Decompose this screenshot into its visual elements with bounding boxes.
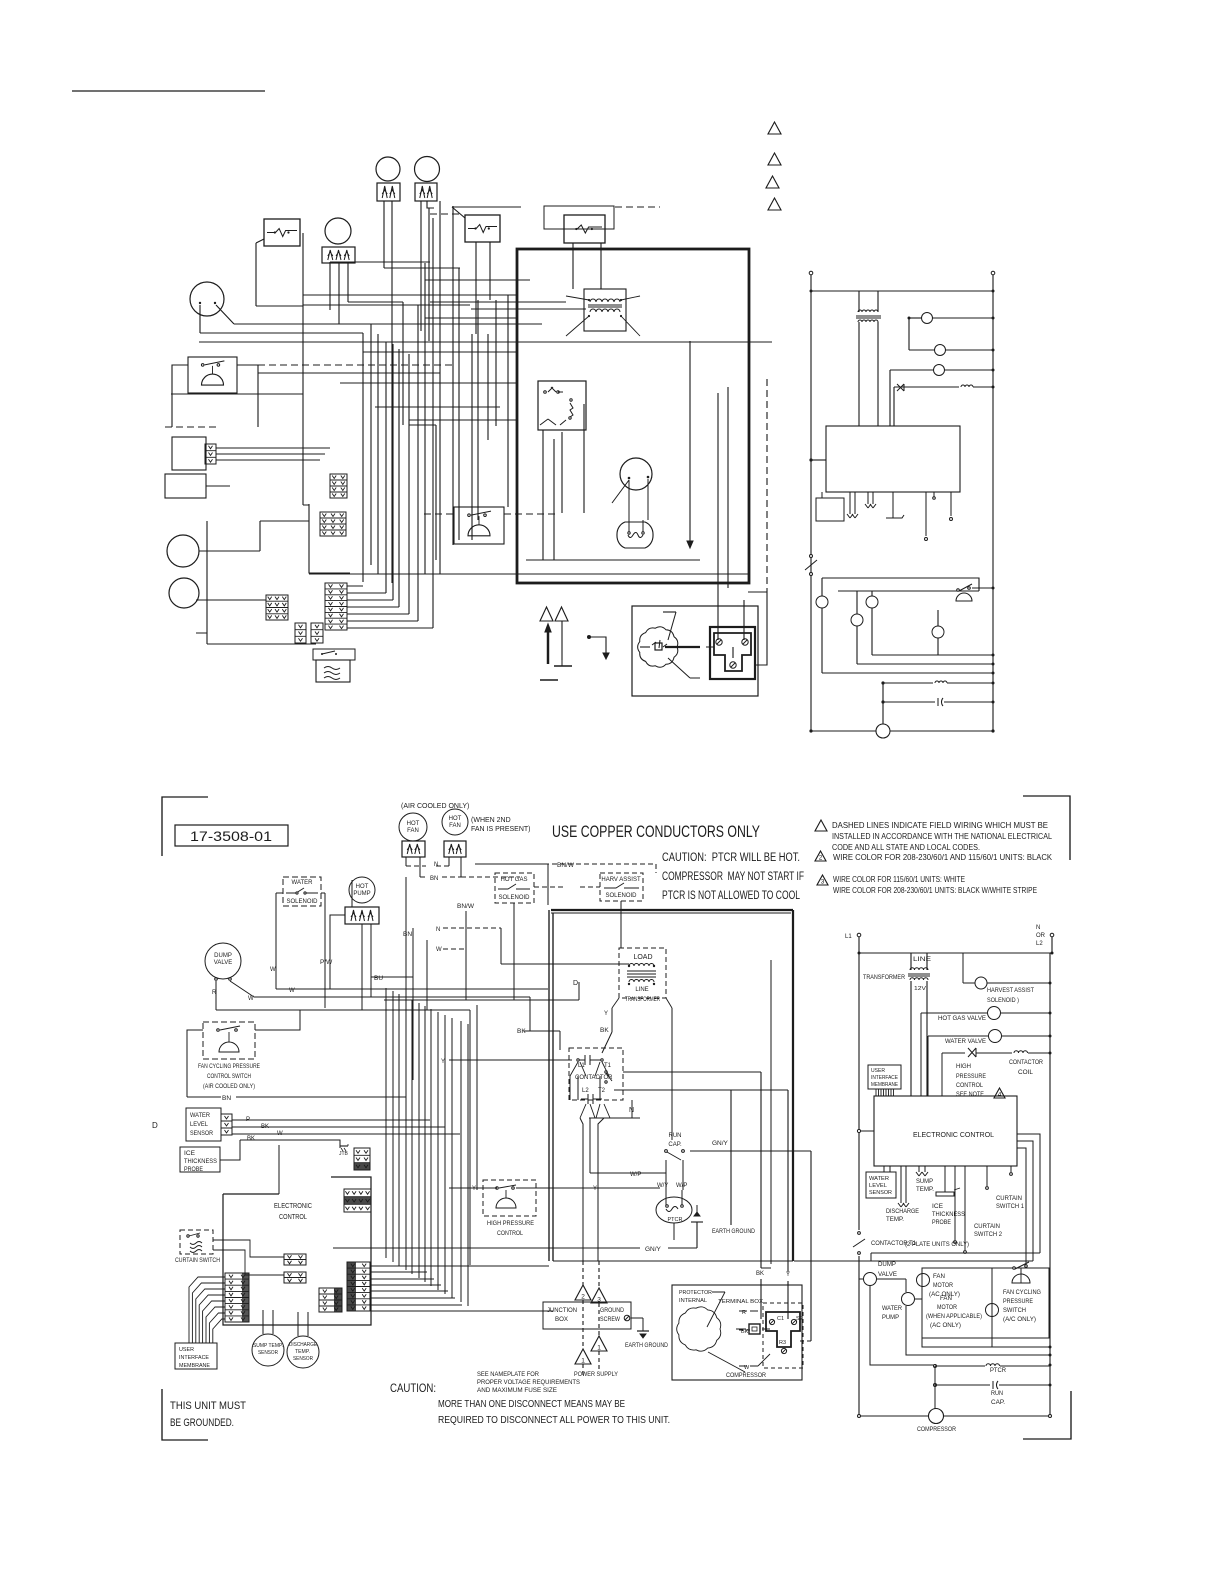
part number box <box>175 825 288 846</box>
ptcr <box>881 681 884 684</box>
corner mark bottom left <box>162 1389 208 1440</box>
svg-text:W: W <box>436 947 442 953</box>
svg-text:POWER SUPPLY: POWER SUPPLY <box>574 1371 619 1378</box>
svg-text:BK: BK <box>247 1136 255 1142</box>
svg-text:ICE: ICE <box>932 1204 943 1210</box>
harvest solenoid <box>909 317 921 319</box>
svg-text:CONTACTOR: CONTACTOR <box>1009 1060 1044 1066</box>
contactor leads <box>570 1062 609 1076</box>
electronic control right <box>874 1096 1017 1166</box>
svg-text:CURTAIN: CURTAIN <box>974 1224 1000 1230</box>
svg-text:INTERFACE: INTERFACE <box>179 1355 209 1361</box>
svg-text:CONTROL: CONTROL <box>497 1230 523 1237</box>
compressor box bottom <box>672 1285 802 1380</box>
svg-text:THICKNESS: THICKNESS <box>932 1212 965 1218</box>
water level sensor box <box>172 437 206 470</box>
power supply dashed <box>582 1261 584 1285</box>
bold feeder <box>551 909 793 911</box>
svg-text:SOLENOID: SOLENOID <box>286 899 318 905</box>
hot gas solenoid <box>909 349 934 351</box>
svg-text:(WHEN 2ND: (WHEN 2ND <box>471 817 511 824</box>
svg-text:BOX: BOX <box>555 1317 568 1323</box>
fan cycling wires <box>187 1030 406 1097</box>
control connector 1 <box>354 1148 370 1170</box>
svg-text:COMPRESSOR: COMPRESSOR <box>917 1427 957 1433</box>
svg-text:FAN: FAN <box>933 1274 945 1280</box>
svg-text:W: W <box>270 967 276 973</box>
curtain switch box <box>180 1230 213 1254</box>
svg-text:CAP.: CAP. <box>668 1142 682 1148</box>
corner mark top right <box>1023 796 1070 860</box>
right rails <box>858 937 860 953</box>
corner mark top left <box>162 797 208 856</box>
svg-text:HIGH PRESSURE: HIGH PRESSURE <box>487 1220 535 1227</box>
svg-text:SENSOR: SENSOR <box>190 1131 214 1137</box>
svg-text:THIS UNIT MUST: THIS UNIT MUST <box>170 1400 246 1412</box>
left long verticals <box>470 1005 477 1265</box>
hot fan heater 2 <box>444 841 466 857</box>
hp control diode + contactor coil <box>894 386 959 388</box>
svg-text:(AIR COOLED ONLY): (AIR COOLED ONLY) <box>401 803 469 810</box>
bundle verticals <box>386 988 468 1306</box>
svg-text:BN: BN <box>222 1095 231 1102</box>
svg-text:MOTOR: MOTOR <box>933 1283 954 1289</box>
svg-text:12V: 12V <box>914 986 926 992</box>
pressure switch lower <box>957 589 960 592</box>
svg-text:CONTROL: CONTROL <box>279 1214 307 1221</box>
thermostat S3 back plate <box>544 206 614 229</box>
terminal feed wires <box>760 1072 762 1268</box>
svg-text:FAN IS PRESENT): FAN IS PRESENT) <box>471 826 531 833</box>
discharge temp pins <box>898 1166 909 1207</box>
svg-text:SCREW: SCREW <box>600 1317 620 1323</box>
jtb symbol <box>340 1145 348 1147</box>
svg-text:BK: BK <box>756 1271 764 1277</box>
corner mark bottom right <box>1023 1391 1071 1439</box>
svg-text:USER: USER <box>871 1068 885 1074</box>
svg-text:RUN: RUN <box>991 1391 1003 1397</box>
svg-text:SWITCH 2: SWITCH 2 <box>974 1232 1003 1238</box>
fan heater 1 <box>377 183 400 201</box>
compressor motor <box>638 627 678 667</box>
svg-text:WIRE COLOR FOR 208-230/60/1 UN: WIRE COLOR FOR 208-230/60/1 UNITS: BLACK… <box>833 886 1037 895</box>
svg-text:HOT: HOT <box>407 821 420 827</box>
sump temp pins <box>916 1166 928 1176</box>
svg-text:SENSOR: SENSOR <box>869 1190 892 1196</box>
hg solenoid lower <box>871 591 873 596</box>
svg-text:TEMP.: TEMP. <box>295 1349 310 1355</box>
svg-text:SENSOR: SENSOR <box>258 1350 278 1356</box>
svg-text:(A/C ONLY): (A/C ONLY) <box>1003 1317 1036 1323</box>
svg-text:COIL: COIL <box>1018 1070 1034 1076</box>
svg-text:EARTH GROUND: EARTH GROUND <box>625 1343 669 1349</box>
water solenoid <box>890 369 933 371</box>
wire mesh horizontals <box>171 206 772 644</box>
svg-text:WIRE COLOR FOR 208-230/60/1 AN: WIRE COLOR FOR 208-230/60/1 AND 115/60/1… <box>833 853 1053 862</box>
note triangle 1 <box>768 122 781 134</box>
svg-text:DUMP: DUMP <box>214 953 232 959</box>
line transformer <box>858 291 860 312</box>
sump temp sensor <box>252 1334 284 1366</box>
svg-text:MORE THAN ONE DISCONNECT MEANS: MORE THAN ONE DISCONNECT MEANS MAY BE <box>438 1398 625 1410</box>
svg-text:HARVEST ASSIST: HARVEST ASSIST <box>987 988 1034 994</box>
note triangle 2 <box>768 153 781 165</box>
svg-text:DUMP: DUMP <box>878 1262 896 1268</box>
note 2 triangle <box>815 851 826 861</box>
connector F <box>311 623 323 643</box>
svg-text:N: N <box>1036 925 1040 931</box>
svg-text:FAN: FAN <box>449 823 461 829</box>
svg-text:RUN: RUN <box>669 1133 682 1139</box>
water pump right <box>905 1279 907 1292</box>
field triangle 1b <box>575 1349 591 1364</box>
left schematic wires <box>406 857 461 1248</box>
svg-text:W/P: W/P <box>676 1183 687 1189</box>
run cap wires <box>666 1160 683 1190</box>
connector D feeders <box>347 586 433 628</box>
hot pump <box>349 877 375 903</box>
svg-text:HOT GAS VALVE: HOT GAS VALVE <box>938 1016 986 1022</box>
fan motor 1 <box>376 157 400 181</box>
svg-text:HARV ASSIST: HARV ASSIST <box>601 877 641 883</box>
svg-text:MOTOR: MOTOR <box>937 1305 958 1311</box>
svg-text:CAP.: CAP. <box>991 1400 1005 1406</box>
water solenoid box <box>283 877 321 906</box>
svg-text:SUMP TEMP.: SUMP TEMP. <box>253 1343 283 1349</box>
svg-text:CONTROL: CONTROL <box>956 1083 984 1089</box>
svg-text:ELECTRONIC: ELECTRONIC <box>274 1203 312 1210</box>
svg-text:(AIR COOLED ONLY): (AIR COOLED ONLY) <box>203 1083 255 1090</box>
svg-text:WATER VALVE: WATER VALVE <box>945 1039 986 1045</box>
svg-text:ICE: ICE <box>184 1151 195 1157</box>
water level sensor <box>186 1108 221 1141</box>
connector D <box>325 583 347 630</box>
pump heater <box>322 247 355 263</box>
terminal box inner wires <box>706 647 733 658</box>
svg-text:4: 4 <box>998 1092 1002 1099</box>
svg-text:CONTROL SWITCH: CONTROL SWITCH <box>207 1073 251 1080</box>
terminal box T <box>766 1312 800 1347</box>
svg-text:R3: R3 <box>779 1340 786 1346</box>
hot fan 1 <box>399 813 427 841</box>
electronic control box <box>826 426 960 492</box>
earth ground dot arrow <box>587 635 591 639</box>
svg-text:VALVE: VALVE <box>878 1272 897 1278</box>
curtain switch leads <box>213 1240 284 1275</box>
long horizontals mid <box>216 977 548 1031</box>
svg-text:BN/W: BN/W <box>557 862 575 869</box>
sensor wires left <box>220 1120 460 1160</box>
thermostat S2 <box>465 215 500 242</box>
right schematic rails <box>810 273 812 731</box>
svg-text:L2: L2 <box>582 1088 589 1094</box>
svg-text:WATER: WATER <box>190 1113 211 1119</box>
svg-text:HOT: HOT <box>356 884 369 890</box>
junction earth <box>631 1317 643 1319</box>
gn/y earth wire <box>333 1247 640 1249</box>
svg-text:COMPRESSOR: COMPRESSOR <box>726 1373 767 1379</box>
electronic control outline <box>223 1177 371 1325</box>
svg-text:PRESSURE: PRESSURE <box>956 1074 986 1080</box>
svg-text:INTERFACE: INTERFACE <box>871 1075 898 1081</box>
pump motor <box>325 218 351 244</box>
ptcr left <box>656 1197 692 1223</box>
svg-text:Y: Y <box>441 1059 445 1065</box>
svg-text:17-3508-01: 17-3508-01 <box>190 829 272 844</box>
svg-text:PROBE: PROBE <box>932 1220 951 1226</box>
dashed field wires top <box>165 207 660 514</box>
compressor box <box>632 606 758 696</box>
ground arrow <box>689 341 691 541</box>
svg-text:JTB: JTB <box>339 1151 349 1157</box>
svg-text:CAUTION:: CAUTION: <box>390 1381 436 1395</box>
svg-text:BN: BN <box>403 931 412 938</box>
bottom line <box>811 730 876 732</box>
svg-text:D: D <box>152 1121 158 1130</box>
svg-text:CODE AND ALL STATE AND LOCAL C: CODE AND ALL STATE AND LOCAL CODES. <box>832 843 980 852</box>
svg-text:BU: BU <box>374 975 383 982</box>
heater plate lid <box>313 649 355 660</box>
svg-text:3: 3 <box>821 879 825 886</box>
svg-text:DISCHARGE: DISCHARGE <box>886 1209 919 1215</box>
curtain switch 1 pins <box>986 1166 988 1186</box>
svg-text:C1: C1 <box>777 1316 784 1322</box>
note 1 triangle <box>815 820 827 831</box>
svg-text:Y: Y <box>604 1011 608 1017</box>
wire mesh verticals <box>200 201 744 640</box>
svg-text:BN: BN <box>430 876 438 882</box>
ribbon connector <box>225 1273 249 1322</box>
field triangle 1a <box>591 1336 607 1351</box>
high pressure control box <box>483 1180 536 1216</box>
harv assist solenoid box <box>600 873 643 901</box>
run cap right <box>934 1384 937 1387</box>
transformer T1 <box>584 289 626 331</box>
svg-text:D: D <box>573 980 578 987</box>
svg-text:TRANSFORMER: TRANSFORMER <box>625 997 660 1003</box>
control left lead <box>809 458 812 461</box>
discharge temp sensor <box>287 1336 319 1368</box>
fan box right <box>922 1268 1049 1338</box>
svg-text:HOT: HOT <box>449 816 462 822</box>
relay box <box>538 381 586 430</box>
float switch 2 <box>169 578 199 608</box>
pressure switch <box>188 357 237 393</box>
field wiring arrows <box>540 607 553 621</box>
field triangle 2 <box>575 1285 591 1300</box>
svg-text:TERMINAL BOX: TERMINAL BOX <box>718 1299 763 1305</box>
svg-text:MEMBRANE: MEMBRANE <box>871 1082 898 1088</box>
svg-text:CONTACTOR T1: CONTACTOR T1 <box>871 1241 917 1247</box>
svg-text:(WHEN APPLICABLE): (WHEN APPLICABLE) <box>926 1314 982 1320</box>
terminal box dashed <box>763 1303 803 1368</box>
svg-text:T2: T2 <box>598 1088 606 1094</box>
note triangle 3 <box>766 176 779 188</box>
svg-text:LOAD: LOAD <box>633 954 652 961</box>
note 3 triangle <box>817 875 828 885</box>
svg-text:DISCHARGE: DISCHARGE <box>289 1342 318 1348</box>
svg-text:L2: L2 <box>1036 941 1043 947</box>
svg-text:PRESSURE: PRESSURE <box>1003 1299 1033 1305</box>
small connector 1 <box>284 1254 306 1265</box>
connector housing <box>309 504 350 573</box>
connector A <box>330 474 347 498</box>
svg-text:WIRE COLOR FOR 115/60/1 UNITS:: WIRE COLOR FOR 115/60/1 UNITS: WHITE <box>833 875 965 884</box>
pins below control right <box>884 1166 890 1172</box>
svg-text:FAN CYCLING PRESSURE: FAN CYCLING PRESSURE <box>198 1063 260 1070</box>
svg-text:BN/W: BN/W <box>457 903 475 910</box>
water level sensor right <box>866 1172 896 1198</box>
svg-text:SWITCH 1: SWITCH 1 <box>996 1204 1025 1210</box>
line transformer box <box>619 948 666 998</box>
fan motor lower <box>937 610 939 626</box>
svg-text:Y: Y <box>786 1272 790 1278</box>
user interface membrane <box>175 1343 217 1369</box>
svg-text:WATER: WATER <box>882 1306 903 1312</box>
fan wires right <box>1020 1268 1022 1283</box>
water valve right <box>928 1035 988 1037</box>
svg-text:BE GROUNDED.: BE GROUNDED. <box>170 1417 234 1429</box>
pressure switch leads <box>172 365 258 427</box>
connector B <box>320 512 346 536</box>
svg-text:SENSOR: SENSOR <box>293 1356 313 1362</box>
hot pump heater <box>345 907 379 924</box>
svg-text:FAN CYCLING: FAN CYCLING <box>1003 1290 1041 1296</box>
svg-text:P/W: P/W <box>320 959 333 966</box>
wire elbows <box>196 521 266 644</box>
svg-text:W: W <box>744 1365 750 1371</box>
solenoid connection wires <box>534 886 600 888</box>
mid connector <box>319 1288 342 1312</box>
lead slants <box>216 201 465 560</box>
svg-text:LEVEL: LEVEL <box>869 1183 887 1189</box>
svg-text:USER: USER <box>179 1347 194 1353</box>
svg-text:PUMP: PUMP <box>882 1315 899 1321</box>
connector C <box>266 595 288 620</box>
cr solenoid <box>856 591 858 614</box>
svg-text:USE COPPER CONDUCTORS ONLY: USE COPPER CONDUCTORS ONLY <box>552 823 760 841</box>
thermostat S3 <box>564 215 605 243</box>
lower wiring left <box>821 578 823 596</box>
svg-text:SOLENOID: SOLENOID <box>605 893 637 899</box>
svg-text:HIGH: HIGH <box>956 1064 971 1070</box>
fan cycling switch right <box>1013 1267 1016 1270</box>
run capacitor <box>881 700 884 703</box>
float switch 1 <box>167 535 199 567</box>
fan heater 2 <box>415 183 437 201</box>
dump valve motor <box>190 282 224 316</box>
svg-text:OR: OR <box>1036 933 1046 939</box>
relay lower verticals <box>543 404 584 560</box>
selector switch <box>620 458 652 490</box>
bundle into connector <box>371 1266 553 1311</box>
hot gas solenoid box <box>495 873 534 903</box>
svg-text:WATER: WATER <box>292 880 314 886</box>
svg-text:2: 2 <box>819 855 823 862</box>
fan motor 1 right <box>917 1274 930 1287</box>
field triangle 3 <box>591 1288 607 1303</box>
ground bars <box>554 665 572 667</box>
pressure switch dome box 2 <box>454 507 504 544</box>
svg-text:Y: Y <box>472 1186 476 1192</box>
harvest assist solenoid right <box>962 953 964 983</box>
svg-text:MEMBRANE: MEMBRANE <box>179 1363 210 1369</box>
probe box <box>165 474 206 498</box>
svg-text:AND MAXIMUM FUSE SIZE: AND MAXIMUM FUSE SIZE <box>477 1387 558 1394</box>
right connector <box>347 1262 370 1311</box>
hp diode contactor coil right <box>942 1052 965 1054</box>
svg-text:PTCR: PTCR <box>668 1217 683 1223</box>
compressor wire <box>882 683 884 724</box>
terminal labels wires <box>739 1310 758 1312</box>
fan motor 2 <box>415 157 440 182</box>
svg-text:N: N <box>434 862 438 868</box>
svg-text:PUMP: PUMP <box>353 891 370 897</box>
ice thickness probe <box>180 1147 220 1172</box>
svg-text:CAUTION: PTCR WILL BE HOT.: CAUTION: PTCR WILL BE HOT. <box>662 852 800 864</box>
ice probe right <box>944 1166 946 1192</box>
svg-text:FAN: FAN <box>407 828 419 834</box>
svg-text:PROPER VOLTAGE REQUIREMENTS: PROPER VOLTAGE REQUIREMENTS <box>477 1379 581 1386</box>
svg-text:PROBE: PROBE <box>184 1167 203 1173</box>
user interface membrane right <box>868 1065 901 1089</box>
svg-text:PTCR IS NOT ALLOWED TO COOL: PTCR IS NOT ALLOWED TO COOL <box>662 890 800 902</box>
hp control wires <box>449 1187 660 1189</box>
svg-text:GN/Y: GN/Y <box>712 1140 729 1147</box>
compressor motor bottom <box>677 1307 721 1351</box>
svg-text:BK: BK <box>600 1027 609 1034</box>
membrane box small <box>816 498 844 521</box>
svg-text:GROUND: GROUND <box>600 1308 625 1314</box>
sensor wires <box>263 1310 308 1336</box>
svg-text:EARTH GROUND: EARTH GROUND <box>712 1229 756 1235</box>
svg-text:TRANSFORMER: TRANSFORMER <box>863 975 906 981</box>
hot fan 2 <box>442 809 468 835</box>
svg-text:CONTACTOR: CONTACTOR <box>575 1075 613 1081</box>
svg-text:HOT GAS: HOT GAS <box>501 877 528 883</box>
terminal box right wire <box>755 592 767 665</box>
svg-text:INTERNAL: INTERNAL <box>679 1298 707 1304</box>
overload protector <box>617 522 653 548</box>
sensor connector <box>205 444 216 464</box>
left rail breaker <box>810 555 813 558</box>
svg-text:L1: L1 <box>845 934 852 940</box>
control enclosure bold box <box>517 249 749 583</box>
note triangle 4 <box>768 198 781 210</box>
control left pin <box>857 1129 860 1132</box>
contactor box <box>569 1048 623 1100</box>
svg-text:REQUIRED TO DISCONNECT ALL POW: REQUIRED TO DISCONNECT ALL POWER TO THIS… <box>438 1414 670 1426</box>
svg-text:S2: S2 <box>796 1316 803 1322</box>
svg-text:1: 1 <box>597 1345 601 1352</box>
svg-text:FAN: FAN <box>940 1296 952 1302</box>
svg-text:N: N <box>436 927 440 933</box>
junction feed wires <box>580 1118 604 1261</box>
top line <box>811 290 993 292</box>
hot fan heater 1 <box>402 841 425 857</box>
small connector 2 <box>284 1272 306 1283</box>
compressor right <box>929 1409 944 1424</box>
svg-text:VALVE: VALVE <box>214 960 232 966</box>
svg-text:CURTAIN: CURTAIN <box>996 1196 1022 1202</box>
svg-text:GN/Y: GN/Y <box>645 1246 662 1253</box>
svg-text:2: 2 <box>581 1294 585 1301</box>
svg-text:SWITCH: SWITCH <box>1003 1308 1026 1314</box>
svg-text:SOLENOID: SOLENOID <box>498 895 530 901</box>
junction box <box>543 1302 631 1329</box>
svg-text:LEVEL: LEVEL <box>190 1122 209 1128</box>
svg-text:R: R <box>742 1310 746 1316</box>
